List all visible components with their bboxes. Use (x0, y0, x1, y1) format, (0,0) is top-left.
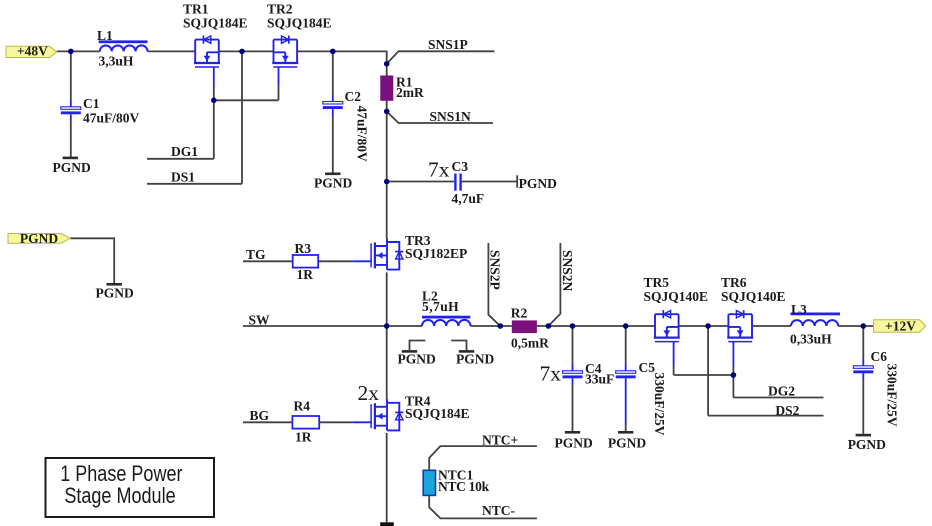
svg-text:NTC 10k: NTC 10k (438, 479, 490, 494)
svg-text:R3: R3 (295, 241, 312, 256)
svg-text:SQJQ140E: SQJQ140E (644, 289, 709, 304)
svg-text:PGND: PGND (20, 231, 58, 246)
svg-text:C2: C2 (345, 89, 362, 104)
svg-text:SNS2P: SNS2P (488, 250, 503, 290)
svg-text:7x: 7x (428, 157, 450, 181)
svg-text:TG: TG (246, 247, 266, 262)
svg-text:2x: 2x (358, 381, 380, 405)
svg-text:TR1: TR1 (183, 2, 209, 17)
svg-text:4,7uF: 4,7uF (452, 191, 485, 206)
svg-text:2mR: 2mR (396, 85, 424, 100)
svg-text:DS1: DS1 (171, 170, 195, 185)
svg-text:PGND: PGND (398, 352, 436, 367)
svg-text:330uF/25V: 330uF/25V (652, 373, 667, 436)
svg-text:SNS1N: SNS1N (430, 109, 472, 124)
svg-text:DG1: DG1 (171, 144, 198, 159)
svg-text:PGND: PGND (53, 160, 91, 175)
svg-text:+12V: +12V (885, 319, 916, 334)
svg-text:PGND: PGND (848, 437, 886, 452)
svg-text:47uF/80V: 47uF/80V (83, 110, 140, 125)
svg-text:1 Phase Power: 1 Phase Power (60, 462, 183, 486)
svg-text:NTC-: NTC- (482, 503, 515, 518)
svg-text:TR5: TR5 (644, 275, 670, 290)
svg-text:TR2: TR2 (267, 2, 293, 17)
svg-text:330uF/25V: 330uF/25V (885, 364, 900, 427)
svg-text:Stage Module: Stage Module (64, 484, 175, 508)
svg-text:C3: C3 (452, 159, 469, 174)
svg-text:+48V: +48V (17, 44, 48, 59)
svg-text:SQJQ184E: SQJQ184E (267, 16, 332, 31)
svg-text:SNS1P: SNS1P (428, 37, 468, 52)
svg-text:SQJ182EP: SQJ182EP (405, 246, 467, 261)
svg-text:1R: 1R (295, 430, 312, 445)
svg-text:SNS2N: SNS2N (560, 250, 575, 292)
svg-text:1R: 1R (297, 267, 314, 282)
svg-text:PGND: PGND (314, 176, 352, 191)
svg-text:PGND: PGND (456, 352, 494, 367)
svg-text:R4: R4 (294, 398, 311, 413)
svg-text:SW: SW (249, 313, 271, 328)
svg-text:0,5mR: 0,5mR (511, 336, 549, 351)
svg-text:47uF/80V: 47uF/80V (355, 106, 370, 163)
svg-text:SQJQ140E: SQJQ140E (721, 289, 786, 304)
svg-text:SQJQ184E: SQJQ184E (405, 406, 470, 421)
svg-text:PGND: PGND (608, 436, 646, 451)
svg-text:R2: R2 (511, 306, 528, 321)
svg-text:7x: 7x (540, 361, 562, 385)
svg-text:3,3uH: 3,3uH (99, 54, 134, 69)
svg-text:DS2: DS2 (775, 403, 799, 418)
svg-text:L1: L1 (97, 28, 113, 43)
svg-text:NTC+: NTC+ (482, 432, 518, 447)
svg-text:L3: L3 (791, 302, 807, 317)
svg-text:33uF: 33uF (585, 371, 614, 386)
svg-text:0,33uH: 0,33uH (790, 331, 832, 346)
svg-text:SQJQ184E: SQJQ184E (183, 16, 248, 31)
svg-text:PGND: PGND (519, 176, 557, 191)
svg-text:PGND: PGND (555, 436, 593, 451)
svg-text:DG2: DG2 (768, 384, 795, 399)
svg-text:5,7uH: 5,7uH (422, 299, 459, 314)
svg-text:TR6: TR6 (721, 275, 747, 290)
svg-text:PGND: PGND (96, 286, 134, 301)
svg-text:C1: C1 (83, 96, 100, 111)
svg-text:BG: BG (250, 408, 270, 423)
svg-text:C6: C6 (871, 349, 888, 364)
